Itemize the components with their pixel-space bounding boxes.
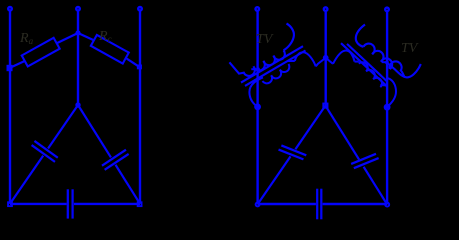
svg-text:TV: TV bbox=[401, 41, 419, 56]
svg-text:TV: TV bbox=[256, 32, 274, 47]
